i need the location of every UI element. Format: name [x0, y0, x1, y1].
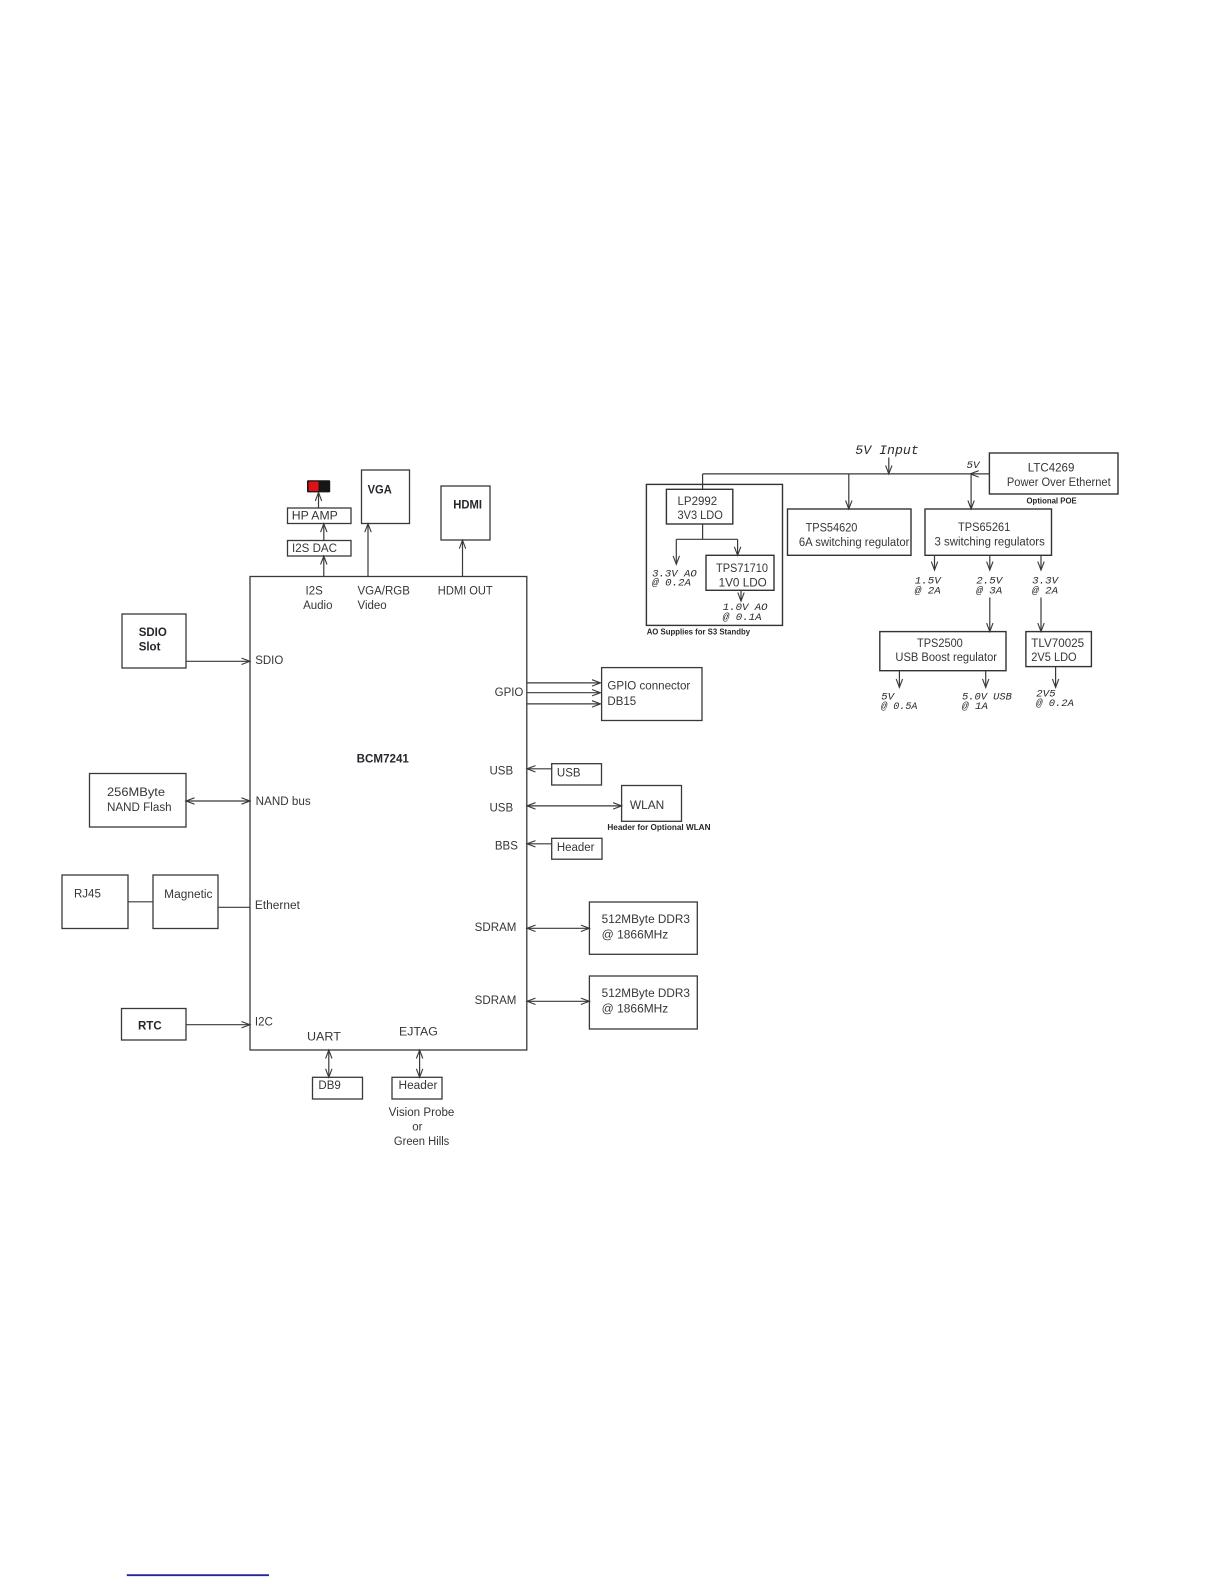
- box LP2992 3V3 LDO: [666, 489, 732, 524]
- svg-text:NAND Flash: NAND Flash: [107, 802, 172, 814]
- svg-text:@ 2A: @ 2A: [915, 585, 941, 597]
- svg-text:5V Input: 5V Input: [855, 444, 919, 458]
- svg-text:@ 1A: @ 1A: [962, 701, 988, 713]
- wire SDRAM2: [527, 1000, 589, 1002]
- wire BCM7241 to HDMI: [462, 540, 464, 576]
- wire 3.3V AO branch: [675, 539, 677, 564]
- svg-text:@ 0.5A: @ 0.5A: [881, 701, 917, 713]
- svg-text:Header for Optional WLAN: Header for Optional WLAN: [607, 823, 710, 832]
- svg-text:BCM7241: BCM7241: [357, 754, 410, 766]
- svg-text:WLAN: WLAN: [630, 800, 664, 812]
- svg-text:USB: USB: [490, 803, 514, 815]
- wire GPIO line 2: [527, 692, 601, 694]
- box WLAN: [622, 786, 682, 822]
- svg-text:TPS65261: TPS65261: [958, 522, 1010, 534]
- box TPS65261: [925, 509, 1052, 555]
- svg-text:Header: Header: [399, 1080, 438, 1092]
- svg-text:VGA: VGA: [368, 484, 392, 496]
- wire RTC to BCM7241 I2C: [186, 1024, 250, 1026]
- svg-text:TPS71710: TPS71710: [716, 563, 768, 575]
- box USB: [552, 764, 602, 785]
- wire USB2 to WLAN: [527, 805, 622, 807]
- svg-text:5V: 5V: [967, 460, 982, 472]
- box RJ45: [62, 875, 128, 929]
- box TPS2500: [880, 632, 1006, 671]
- svg-text:AO Supplies for S3 Standby: AO Supplies for S3 Standby: [647, 628, 751, 637]
- svg-text:I2S DAC: I2S DAC: [292, 543, 337, 555]
- wire TPS2500 out 5V: [898, 671, 900, 688]
- box TLV70025: [1026, 632, 1092, 667]
- wire BCM7241 I2S to I2S DAC: [323, 556, 325, 577]
- svg-text:6A switching regulator: 6A switching regulator: [799, 537, 910, 549]
- wire TPS71710 output: [740, 590, 742, 601]
- wire GPIO line 3: [527, 703, 601, 705]
- svg-text:EJTAG: EJTAG: [399, 1027, 438, 1039]
- svg-text:2V5 LDO: 2V5 LDO: [1031, 652, 1076, 664]
- svg-text:@ 0.2A: @ 0.2A: [652, 578, 691, 590]
- svg-text:SDRAM: SDRAM: [475, 922, 517, 934]
- wire BCM7241 to VGA: [367, 524, 369, 577]
- wire SDIO Slot to BCM7241: [186, 660, 250, 662]
- wire I2S DAC to HP AMP: [323, 524, 325, 541]
- box VGA: [362, 470, 410, 524]
- hyperlink rule at page bottom: [127, 1574, 269, 1576]
- svg-text:LP2992: LP2992: [678, 496, 718, 508]
- svg-text:@ 0.1A: @ 0.1A: [723, 612, 762, 624]
- svg-text:BBS: BBS: [495, 841, 518, 853]
- wire GPIO line 1: [527, 682, 601, 684]
- wire to TPS71710: [737, 539, 739, 555]
- arrow 5V from LTC4269 into rail: [970, 471, 979, 477]
- box 256MByte NAND Flash: [90, 774, 187, 828]
- svg-text:512MByte DDR3: 512MByte DDR3: [602, 914, 690, 926]
- svg-text:DB9: DB9: [318, 1080, 340, 1092]
- svg-text:SDIO: SDIO: [255, 655, 283, 667]
- svg-text:256MByte: 256MByte: [107, 787, 165, 799]
- wire SDRAM1: [527, 927, 589, 929]
- box Header BBS: [552, 838, 602, 859]
- svg-text:SDRAM: SDRAM: [475, 995, 517, 1007]
- wire 2.5V to TPS2500: [989, 598, 991, 632]
- svg-text:RJ45: RJ45: [74, 889, 101, 901]
- svg-text:VGA/RGB: VGA/RGB: [358, 585, 411, 597]
- wire TPS65261 out 1.5V: [934, 555, 936, 570]
- wire Magnetic to BCM7241 Ethernet: [218, 906, 250, 908]
- svg-text:3 switching regulators: 3 switching regulators: [935, 537, 1046, 549]
- svg-text:HP AMP: HP AMP: [292, 511, 338, 523]
- svg-text:DB15: DB15: [607, 696, 636, 708]
- box Magnetic: [153, 875, 218, 929]
- wire TPS65261 out 3.3V: [1040, 555, 1042, 570]
- svg-text:USB Boost regulator: USB Boost regulator: [895, 652, 997, 664]
- IC U1 BCM7241 main box: [250, 577, 527, 1051]
- svg-text:Audio: Audio: [303, 600, 332, 612]
- svg-text:Magnetic: Magnetic: [164, 889, 213, 901]
- svg-text:USB: USB: [490, 766, 514, 778]
- svg-text:TPS54620: TPS54620: [806, 523, 858, 535]
- box TPS71710 1V0 LDO: [706, 555, 774, 590]
- box HDMI: [441, 486, 490, 540]
- wire 5V input arrow: [888, 458, 890, 474]
- box Header EJTAG: [392, 1077, 442, 1099]
- svg-text:512MByte DDR3: 512MByte DDR3: [602, 988, 690, 1000]
- box GPIO connector DB15: [602, 668, 702, 721]
- svg-text:or: or: [412, 1121, 422, 1133]
- svg-text:NAND bus: NAND bus: [256, 796, 311, 808]
- wire USB1: [527, 768, 552, 770]
- wire BBS to Header: [527, 843, 552, 845]
- svg-text:Green Hills: Green Hills: [394, 1136, 450, 1148]
- wire EJTAG to Header: [419, 1050, 421, 1077]
- svg-text:Vision Probe: Vision Probe: [389, 1107, 455, 1119]
- svg-text:Optional POE: Optional POE: [1027, 496, 1078, 505]
- wire TPS2500 out 5.0V USB: [985, 671, 987, 688]
- svg-text:HDMI: HDMI: [453, 500, 482, 512]
- svg-text:GPIO connector: GPIO connector: [607, 681, 690, 693]
- svg-text:@ 1866MHz: @ 1866MHz: [602, 930, 669, 942]
- svg-text:@ 2A: @ 2A: [1032, 585, 1058, 597]
- svg-text:LTC4269: LTC4269: [1028, 462, 1075, 474]
- svg-text:Power Over Ethernet: Power Over Ethernet: [1007, 477, 1112, 489]
- svg-text:Video: Video: [358, 600, 387, 612]
- box AO Supplies outline: [646, 484, 782, 625]
- box RTC: [122, 1009, 187, 1041]
- wire LP2992 output tee: [702, 524, 704, 539]
- wire rail drop to TPS65261: [970, 474, 972, 509]
- svg-text:UART: UART: [307, 1032, 341, 1044]
- box 512MByte DDR3 #1: [589, 902, 697, 954]
- box SDIO Slot: [122, 614, 186, 668]
- wire 5V rail: [703, 473, 990, 475]
- wire RJ45 to Magnetic: [128, 901, 153, 903]
- wire rail drop to LP2992: [702, 474, 704, 489]
- wire NAND bus: [186, 800, 250, 802]
- wire rail drop to TPS54620: [848, 474, 850, 509]
- box HP AMP: [288, 508, 352, 524]
- svg-text:@ 0.2A: @ 0.2A: [1036, 698, 1074, 710]
- svg-text:TLV70025: TLV70025: [1031, 638, 1084, 650]
- svg-text:TPS2500: TPS2500: [917, 638, 963, 650]
- wire TPS65261 out 2.5V: [989, 555, 991, 570]
- svg-text:GPIO: GPIO: [495, 687, 524, 699]
- wire 3.3V to TLV70025: [1040, 598, 1042, 632]
- svg-text:1V0 LDO: 1V0 LDO: [719, 577, 767, 589]
- box LTC4269 Power Over Ethernet: [989, 453, 1118, 494]
- wire UART to DB9: [328, 1050, 330, 1077]
- svg-text:SDIO: SDIO: [139, 627, 167, 639]
- wire TLV70025 out: [1055, 667, 1057, 688]
- svg-text:RTC: RTC: [138, 1021, 162, 1033]
- svg-text:@ 3A: @ 3A: [976, 585, 1002, 597]
- svg-text:3V3 LDO: 3V3 LDO: [678, 510, 723, 522]
- svg-text:@ 1866MHz: @ 1866MHz: [602, 1003, 669, 1015]
- box 512MByte DDR3 #2: [589, 976, 697, 1029]
- box DB9: [313, 1077, 363, 1099]
- box TPS54620: [788, 509, 912, 555]
- svg-text:I2S: I2S: [306, 585, 324, 597]
- box I2S DAC: [288, 541, 352, 557]
- wire HP AMP to jack: [318, 492, 320, 508]
- svg-text:HDMI OUT: HDMI OUT: [438, 585, 493, 597]
- svg-text:Slot: Slot: [139, 642, 161, 654]
- svg-text:Ethernet: Ethernet: [255, 900, 301, 912]
- svg-text:USB: USB: [557, 767, 581, 779]
- svg-text:Header: Header: [557, 842, 595, 854]
- svg-text:I2C: I2C: [255, 1017, 273, 1029]
- connector J1 red/black audio jack icon: [307, 480, 330, 492]
